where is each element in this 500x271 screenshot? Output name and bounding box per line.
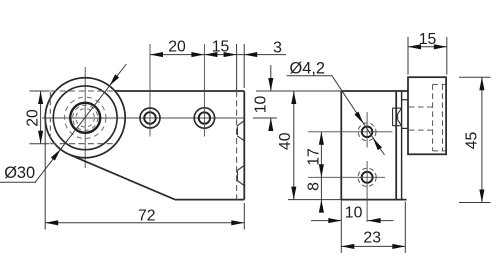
plate top edge: [115, 90, 245, 92]
ext 23 left (plate left edge ext): [340, 200, 342, 253]
arrow dim40 top: [291, 91, 296, 104]
ext 20-left top: [30, 90, 50, 92]
bottom edge right view: [341, 199, 406, 201]
arrow dim20v bottom: [38, 131, 43, 144]
arrow dim40 bottom: [291, 187, 296, 200]
arrow dim20 right: [191, 52, 204, 57]
ext 72 right: [243, 203, 245, 230]
hole H1 centerline: [149, 44, 151, 137]
hole H2: [194, 108, 214, 128]
hole H2 centerline: [203, 44, 205, 137]
tab top: [402, 99, 408, 101]
arrow Ø4,2 lower: [371, 137, 382, 150]
svg-text:45: 45: [463, 132, 480, 150]
hole upper csk dashed circle: [358, 123, 376, 141]
leader Ø30 diagonal: [35, 64, 126, 182]
arrow Ø30 lower: [51, 148, 63, 161]
gusset diagonal: [71, 155, 175, 199]
hole lower right view: [362, 172, 373, 183]
node centerline horizontal: [42, 117, 244, 119]
csk hole upper (left view): [237, 121, 244, 141]
dashed circle r20.7: [65, 97, 106, 138]
ext 45 top: [459, 76, 491, 78]
boss outer circle Ø30: [45, 78, 125, 158]
svg-text:8: 8: [305, 182, 322, 191]
arrow dim72 right: [231, 220, 244, 225]
hole H2 inner circle: [199, 112, 210, 123]
ext line x244.2 top: [243, 44, 245, 88]
dim line 72: [45, 222, 244, 224]
Ø4,2 leader: [332, 76, 385, 155]
dim 23: [341, 245, 405, 247]
svg-text:15: 15: [419, 31, 437, 48]
dim 40: [293, 91, 295, 200]
ext line x236.6 top: [236, 44, 238, 91]
svg-text:Ø30: Ø30: [4, 164, 35, 182]
bottom edge: [175, 199, 244, 201]
svg-text:23: 23: [363, 230, 381, 247]
svg-text:17: 17: [305, 148, 322, 166]
top edge right view: [341, 90, 408, 92]
svg-text:3: 3: [273, 40, 282, 57]
bore circle thick: [70, 103, 100, 133]
boss hidden bore lines: [409, 84, 446, 150]
hole lower centerline horizontal: [308, 176, 385, 178]
leader Ø30: [0, 181, 36, 183]
arrow Ø30 upper: [108, 74, 120, 87]
right face 2: [401, 91, 403, 200]
arrow dim17 top: [319, 132, 324, 145]
arrow dim45 bottom: [479, 190, 484, 203]
boss chamfer circle: [53, 86, 117, 150]
tab bottom: [402, 127, 408, 129]
arrow dim3: [244, 52, 257, 57]
arrow dim10b right: [368, 218, 381, 223]
arrow Ø4,2 upper: [354, 112, 365, 125]
hole lower centerline vertical: [366, 161, 368, 222]
arrow dim10v top: [268, 78, 273, 91]
hole lower csk dashed circle: [358, 168, 376, 186]
svg-text:10: 10: [345, 205, 363, 222]
arrow dim72 left: [45, 220, 58, 225]
boss rect: [408, 77, 446, 154]
left edge: [340, 91, 342, 200]
svg-text:72: 72: [138, 207, 156, 224]
right edge: [243, 91, 245, 200]
hole H1 inner circle: [144, 112, 156, 124]
bottom edge extension left: [288, 199, 341, 201]
ext 15 boss left: [407, 37, 409, 75]
arrow dim15r left: [408, 44, 421, 49]
hidden plate left end behind boss: [49, 92, 51, 143]
node centerline vertical boss: [84, 67, 86, 168]
dashed circle r12.6: [73, 105, 98, 130]
csk side view: [392, 108, 401, 126]
dim line 20/15 top: [150, 54, 237, 56]
dim 10 top: lower part: [270, 118, 272, 127]
ext 20-left bottom: [30, 143, 50, 145]
hole upper centerline horizontal: [308, 131, 393, 133]
arrow dim23 right: [392, 244, 405, 249]
Ø4,2 underline: [287, 75, 333, 77]
svg-text:40: 40: [277, 132, 294, 150]
csk hole lower (left view): [237, 165, 244, 185]
hole upper centerline vertical: [366, 112, 368, 148]
hidden bottom edge behind boss: [50, 143, 115, 145]
arrow dim15 right: [224, 52, 237, 57]
arrow dim10b left: [328, 218, 341, 223]
dashed circle r9.2: [76, 109, 94, 127]
svg-text:20: 20: [168, 39, 186, 56]
ext 45 bottom: [459, 202, 491, 204]
arrow dim45 top: [479, 77, 484, 90]
ext 23 right: [404, 202, 406, 253]
dim 15: [408, 46, 447, 48]
svg-text:15: 15: [212, 39, 230, 56]
dim 10 bottom: [311, 220, 341, 222]
hidden top edge behind boss: [50, 90, 114, 92]
dim 17 / 8: [320, 132, 322, 212]
svg-text:10: 10: [252, 96, 269, 114]
right face 1: [395, 91, 397, 200]
dim 10 top: upper part: [270, 65, 272, 91]
ext 72 left: [44, 119, 46, 230]
svg-text:Ø4,2: Ø4,2: [290, 59, 326, 77]
ext 15 boss right: [446, 37, 448, 75]
arrow dim15r right: [434, 44, 447, 49]
arrow dim23 left: [341, 244, 354, 249]
hole upper right view: [362, 127, 373, 138]
dim line 20-left: [40, 91, 42, 144]
dim 10 bottom right part: [368, 220, 394, 222]
arrow dim20 left: [150, 52, 163, 57]
hole H1: [140, 108, 160, 128]
arrow dim17 bottom: [319, 164, 324, 177]
arrow dim20v top: [38, 91, 43, 104]
centerline ext for 10: [253, 117, 277, 119]
dim line 3 tail: [237, 54, 286, 56]
arrow dim15 left: [204, 52, 217, 57]
hidden flange inner face: [236, 91, 238, 200]
arrow dim10v bottom: [268, 118, 273, 131]
svg-text:20: 20: [25, 109, 42, 127]
dim 45: [481, 77, 483, 202]
top edge + extension left: [256, 90, 341, 92]
arrow dim8: [319, 200, 324, 213]
